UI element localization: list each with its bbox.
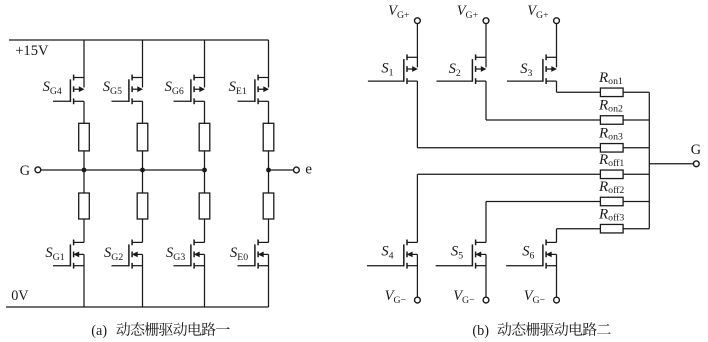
svg-text:S5: S5 <box>451 244 463 262</box>
svg-text:VG+: VG+ <box>527 3 549 21</box>
svg-text:G: G <box>20 163 30 179</box>
svg-text:S3: S3 <box>520 61 532 79</box>
svg-text:VG−: VG− <box>453 288 475 306</box>
svg-text:e: e <box>305 160 312 177</box>
svg-text:S2: S2 <box>449 61 461 79</box>
svg-text:SE0: SE0 <box>230 245 248 263</box>
svg-text:SE1: SE1 <box>229 79 247 97</box>
svg-text:0V: 0V <box>11 288 29 304</box>
svg-text:VG−: VG− <box>524 288 546 306</box>
svg-text:S1: S1 <box>381 61 393 79</box>
svg-text:Ron1: Ron1 <box>598 70 623 87</box>
svg-text:Roff3: Roff3 <box>598 206 624 223</box>
svg-text:(b): (b) <box>472 323 489 339</box>
svg-text:SG3: SG3 <box>166 245 185 263</box>
svg-text:VG+: VG+ <box>388 3 410 21</box>
svg-text:Ron2: Ron2 <box>598 98 623 115</box>
svg-text:SG2: SG2 <box>104 245 123 263</box>
svg-text:S6: S6 <box>522 244 534 262</box>
svg-text:(a): (a) <box>91 323 107 339</box>
svg-text:G: G <box>691 142 701 158</box>
svg-text:VG−: VG− <box>385 288 407 306</box>
svg-text:Roff2: Roff2 <box>598 179 624 196</box>
svg-text:SG5: SG5 <box>103 79 122 97</box>
svg-text:Roff1: Roff1 <box>598 152 624 169</box>
svg-text:S4: S4 <box>381 244 393 262</box>
svg-text:+15V: +15V <box>15 43 49 59</box>
svg-text:SG4: SG4 <box>43 79 62 97</box>
svg-text:VG+: VG+ <box>457 3 479 21</box>
svg-text:Ron3: Ron3 <box>598 126 623 143</box>
svg-text:SG1: SG1 <box>45 245 64 263</box>
svg-text:SG6: SG6 <box>165 79 184 97</box>
